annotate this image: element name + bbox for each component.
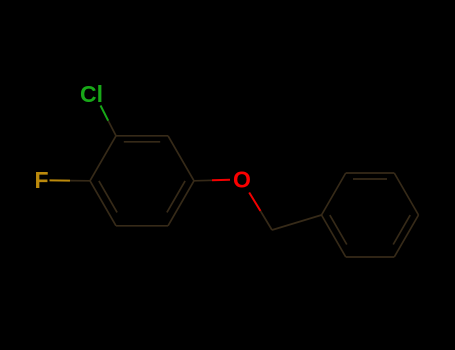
benzene ring A (left, chloro-fluoro-phenyl) xyxy=(90,136,194,226)
svg-text:O: O xyxy=(233,167,251,193)
bond O-CH2 carbon half xyxy=(261,211,273,230)
bond CH2-ring B xyxy=(272,215,322,230)
wire ring B edge V6-V1 xyxy=(322,215,346,257)
bond C-F gold half xyxy=(50,179,71,181)
wire ring B inner double V6-V1 xyxy=(330,215,347,244)
wire ring A edge R-BR xyxy=(168,181,194,226)
wire ring B edge V1-V2 xyxy=(322,173,346,215)
bond O-CH2 red half xyxy=(249,193,260,212)
bond C-Cl green half xyxy=(101,106,109,121)
wire ring A inner double R-BR xyxy=(167,181,185,213)
bond ring-O carbon half xyxy=(194,179,212,182)
wire ring A edge TR-R xyxy=(168,136,194,181)
wire ring A edge BR-BL xyxy=(116,225,168,227)
wire ring A edge TL-TR xyxy=(116,135,168,137)
bond C-Cl carbon half xyxy=(108,121,116,136)
bond ring-O red half xyxy=(212,179,230,182)
wire ring B edge V4-V5 xyxy=(394,215,418,257)
wire ring B edge V3-V4 xyxy=(394,173,418,215)
wire ring B inner double V4-V5 xyxy=(393,215,410,244)
svg-text:F: F xyxy=(35,167,49,193)
wire ring B edge V5-V6 xyxy=(346,256,395,258)
wire ring A inner double BL-L xyxy=(99,181,117,213)
svg-text:Cl: Cl xyxy=(80,81,103,107)
wire ring B edge V2-V3 xyxy=(346,172,395,174)
benzene ring B (right, phenyl) xyxy=(322,173,419,257)
bond C-F carbon half xyxy=(70,180,90,182)
wire ring A edge L-TL xyxy=(90,136,116,181)
wire ring A inner double TL-TR xyxy=(124,141,160,143)
wire ring A edge BL-L xyxy=(90,181,116,226)
wire ring B inner double V2-V3 xyxy=(353,178,387,180)
